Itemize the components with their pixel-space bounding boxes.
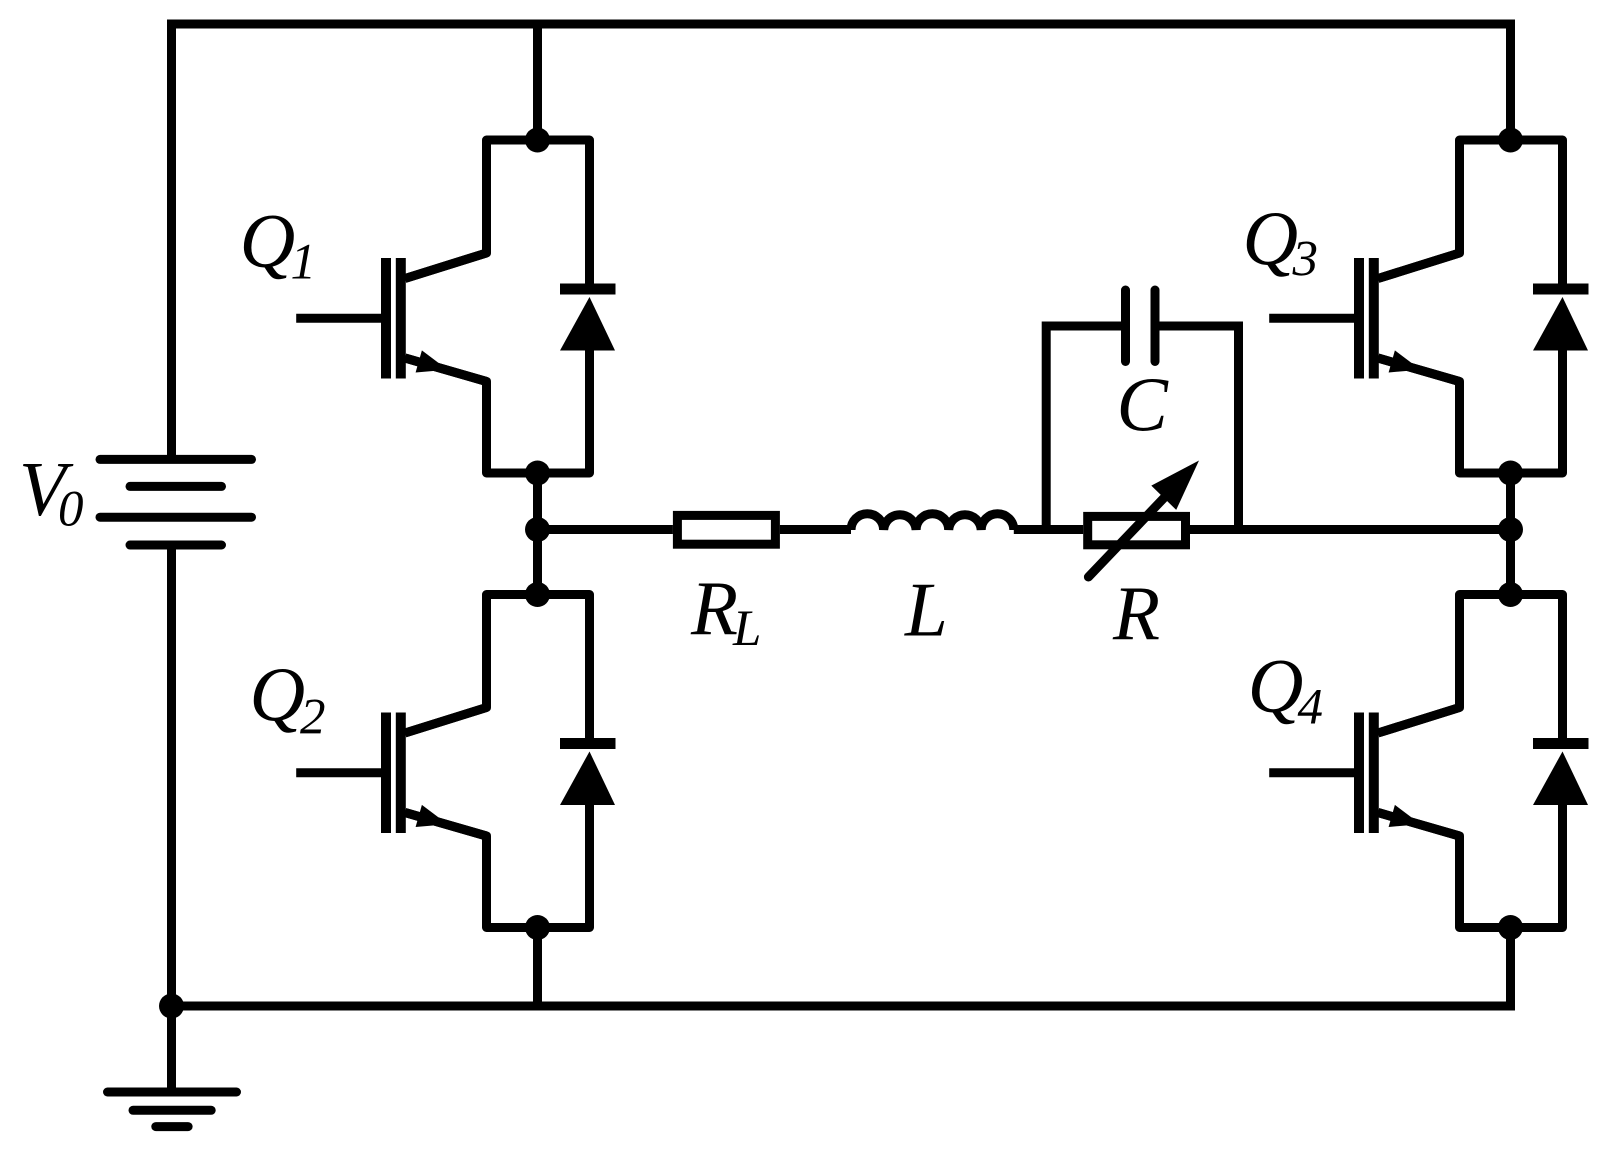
wire: Q4 top bar and upper legs [1378,595,1563,747]
wire: Q3 bottom bar and lower legs [1378,345,1563,473]
wire: R to right phase node [1190,525,1511,534]
svg-text:1: 1 [291,235,317,291]
svg-text:Q: Q [240,197,296,283]
svg-text:3: 3 [1292,232,1319,288]
wire: left phase link Q1-Q2 [533,473,542,595]
node: Q2 emitter junction [525,915,550,940]
wire: Q4 bottom bar and lower legs [1378,800,1563,928]
battery V0 [100,459,252,545]
transistor Q2 (IGBT) [296,708,486,837]
svg-text:Q: Q [1248,643,1304,729]
variable resistor R [1088,516,1186,544]
diode D4 (antiparallel) [1533,744,1589,806]
node: Q2 collector junction [525,582,550,607]
resistor RL [677,515,775,544]
svg-text:R: R [690,565,738,651]
wire: left rail top + top rail + right drop to Q3 [172,24,1511,459]
node: right phase junction [1498,517,1523,542]
svg-text:0: 0 [58,482,84,538]
inductor L [851,514,1014,530]
capacitor C plates [1126,290,1156,362]
node: Q1 collector junction [525,128,550,153]
wire: Q2 top bar and upper legs [405,595,590,747]
wire: Q3 top bar and upper legs [1378,140,1563,292]
wire: Q4 drop + bottom rail [172,928,1511,1007]
svg-text:4: 4 [1298,680,1324,736]
wire: Q1 bottom bar and lower legs [405,345,590,473]
transistor Q4 (IGBT) [1269,708,1459,837]
node: phase A junction [525,517,550,542]
wire: RL to L [780,525,851,534]
wire: left rail bottom (battery to ground) [167,545,176,1092]
node: Q1 emitter junction [525,461,550,486]
svg-text:Q: Q [1243,195,1299,281]
node: Q4 emitter junction [1498,915,1523,940]
variable resistor R arrow [1088,490,1172,578]
wire: Q2 bottom bar and lower legs [405,800,590,928]
wire: right phase link Q3-Q4 [1506,473,1515,595]
svg-text:L: L [904,567,948,653]
diode D1 (antiparallel) [560,289,616,351]
transistor Q1 (IGBT) [296,253,486,382]
ground [108,1092,237,1127]
transistor Q3 (IGBT) [1269,253,1459,382]
svg-text:C: C [1117,362,1170,448]
node: Q3 collector junction [1498,128,1523,153]
svg-text:L: L [732,601,761,657]
diode D3 (antiparallel) [1533,289,1589,351]
wire: Q1 top bar and upper legs [405,140,590,292]
node: Q4 collector junction [1498,582,1523,607]
node: Q3 emitter junction [1498,461,1523,486]
svg-text:2: 2 [300,690,326,746]
capacitor C branch right [1159,326,1239,530]
svg-text:Q: Q [250,651,306,737]
capacitor C branch left [1046,326,1121,530]
svg-text:R: R [1112,570,1160,656]
wire: phase A to RL [538,525,673,534]
node: negative rail / ground junction [159,994,184,1019]
diode D2 (antiparallel) [560,744,616,806]
wire: drop from top rail to Q1 [533,24,542,140]
wire: Q2 to bottom rail [533,928,542,1007]
wire: L to R [1014,525,1083,534]
